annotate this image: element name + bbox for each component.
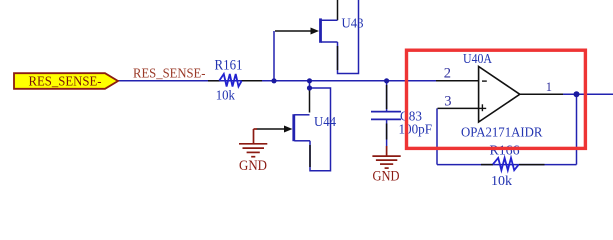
svg-text:2: 2 (444, 66, 451, 82)
svg-text:GND: GND (239, 158, 267, 174)
svg-text:RES_SENSE-: RES_SENSE- (29, 74, 102, 89)
svg-text:GND: GND (373, 169, 400, 185)
svg-text:R166: R166 (490, 144, 520, 159)
svg-text:RES_SENSE-: RES_SENSE- (133, 66, 206, 81)
svg-text:OPA2171AIDR: OPA2171AIDR (461, 126, 543, 141)
svg-text:R161: R161 (215, 57, 243, 73)
svg-text:1: 1 (546, 80, 552, 94)
svg-text:3: 3 (444, 94, 451, 110)
svg-text:U43: U43 (342, 17, 364, 32)
svg-text:10k: 10k (216, 89, 235, 104)
svg-text:100pF: 100pF (399, 123, 433, 138)
svg-text:U44: U44 (314, 115, 336, 130)
svg-text:U40A: U40A (463, 52, 493, 67)
svg-text:10k: 10k (491, 174, 512, 189)
